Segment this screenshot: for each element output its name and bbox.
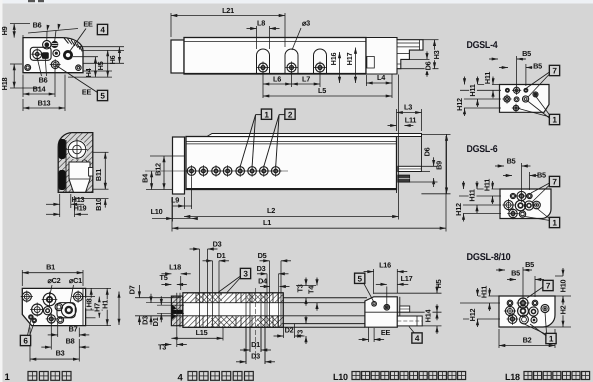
svg-text:B5: B5: [525, 260, 534, 269]
svg-text:L2: L2: [267, 206, 275, 215]
svg-text:⌀C1: ⌀C1: [69, 276, 82, 285]
svg-text:D3: D3: [141, 316, 150, 325]
svg-text:H2: H2: [559, 305, 568, 314]
svg-text:B4: B4: [141, 173, 150, 183]
svg-text:H11: H11: [483, 179, 492, 191]
svg-text:B9: B9: [435, 161, 444, 170]
svg-text:L21: L21: [222, 6, 234, 15]
svg-text:⌀3: ⌀3: [302, 19, 310, 28]
svg-text:L10: L10: [151, 207, 163, 216]
svg-text:6: 6: [23, 337, 28, 346]
svg-text:L16: L16: [379, 261, 391, 270]
svg-text:B5: B5: [507, 157, 516, 166]
svg-text:DGSL-6: DGSL-6: [467, 144, 499, 155]
svg-text:L15: L15: [196, 328, 208, 337]
svg-text:4: 4: [415, 334, 420, 343]
svg-text:H12: H12: [454, 203, 463, 216]
svg-text:1: 1: [549, 335, 554, 344]
svg-text:7: 7: [546, 282, 551, 291]
svg-text:3: 3: [243, 270, 248, 279]
svg-text:T3: T3: [158, 343, 166, 352]
svg-text:L8: L8: [257, 19, 265, 28]
svg-text:B2: B2: [523, 336, 532, 345]
svg-text:H14: H14: [424, 308, 433, 322]
svg-text:H9: H9: [0, 26, 9, 35]
svg-text:L7: L7: [302, 75, 310, 84]
svg-text:1: 1: [552, 116, 557, 125]
svg-text:H11: H11: [480, 286, 489, 298]
svg-text:B5: B5: [537, 171, 546, 180]
svg-text:H18: H18: [0, 77, 9, 90]
svg-text:T3: T3: [296, 284, 305, 292]
svg-text:DGSL-8/10: DGSL-8/10: [467, 252, 512, 263]
svg-text:B6: B6: [39, 76, 48, 85]
svg-text:H16: H16: [329, 52, 338, 65]
svg-text:D7: D7: [128, 285, 137, 294]
svg-text:B6: B6: [33, 21, 42, 30]
svg-text:1: 1: [264, 110, 269, 119]
svg-text:L18: L18: [169, 263, 181, 272]
svg-text:D3: D3: [257, 264, 266, 273]
svg-text:L4: L4: [377, 73, 386, 82]
svg-text:L17: L17: [401, 274, 413, 283]
svg-text:T4: T4: [307, 285, 316, 294]
svg-text:H19: H19: [74, 204, 87, 213]
svg-text:D1: D1: [251, 340, 260, 349]
svg-text:D3: D3: [213, 239, 222, 248]
svg-text:H17: H17: [345, 52, 354, 65]
svg-text:L1: L1: [263, 218, 271, 227]
svg-text:H10: H10: [559, 279, 568, 292]
svg-text:H1: H1: [101, 300, 110, 309]
svg-text:H6: H6: [108, 55, 117, 64]
svg-text:H11: H11: [483, 72, 492, 84]
svg-text:H4: H4: [84, 67, 93, 77]
svg-text:⌀C2: ⌀C2: [48, 276, 61, 285]
svg-text:EE: EE: [381, 328, 391, 337]
svg-text:EE: EE: [82, 88, 92, 97]
svg-text:H11: H11: [468, 84, 477, 96]
svg-text:B5: B5: [522, 49, 531, 58]
svg-text:B3: B3: [56, 349, 65, 358]
svg-text:B14: B14: [33, 85, 47, 94]
svg-text:B1: B1: [46, 263, 55, 272]
svg-text:2: 2: [288, 110, 293, 119]
svg-text:H11: H11: [468, 189, 477, 201]
svg-text:L18: L18: [505, 372, 520, 382]
svg-text:B5: B5: [511, 269, 520, 278]
svg-text:H3: H3: [432, 50, 441, 59]
svg-text:B7: B7: [69, 325, 78, 334]
svg-text:B13: B13: [38, 99, 51, 108]
svg-text:D1: D1: [217, 251, 226, 260]
svg-text:B5: B5: [533, 61, 542, 70]
svg-text:7: 7: [552, 67, 557, 76]
svg-text:T5: T5: [159, 273, 167, 282]
svg-text:D4: D4: [258, 277, 268, 286]
svg-text:EE: EE: [83, 20, 93, 29]
svg-text:L5: L5: [318, 86, 326, 95]
svg-text:L10: L10: [333, 372, 348, 382]
svg-text:L6: L6: [273, 75, 281, 84]
svg-text:D3: D3: [251, 352, 260, 361]
svg-text:D6: D6: [424, 61, 433, 70]
svg-text:T3: T3: [296, 330, 305, 338]
svg-text:D1: D1: [151, 317, 160, 326]
svg-text:L3: L3: [404, 103, 412, 112]
svg-text:5: 5: [100, 92, 105, 101]
svg-text:H12: H12: [455, 98, 464, 111]
svg-text:H5: H5: [434, 279, 443, 288]
svg-text:7: 7: [552, 178, 557, 187]
svg-text:DGSL-4: DGSL-4: [467, 40, 499, 51]
svg-text:5: 5: [358, 275, 363, 284]
svg-text:B12: B12: [154, 163, 163, 176]
svg-text:H5: H5: [96, 61, 105, 70]
svg-text:D6: D6: [423, 147, 432, 156]
svg-text:H12: H12: [468, 308, 477, 321]
svg-text:4: 4: [100, 26, 105, 35]
svg-text:B10: B10: [94, 198, 103, 211]
svg-text:L11: L11: [405, 116, 417, 125]
svg-text:B8: B8: [66, 337, 75, 346]
svg-text:D5: D5: [258, 251, 267, 260]
svg-text:B11: B11: [94, 169, 103, 181]
svg-text:1: 1: [552, 219, 557, 228]
